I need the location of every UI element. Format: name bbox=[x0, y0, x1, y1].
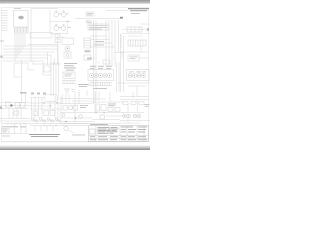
note text bottom left bbox=[2, 126, 26, 127]
label text bbox=[93, 88, 107, 89]
wire harness lower mid bbox=[30, 98, 62, 110]
relay K9 bbox=[100, 115, 105, 119]
contactor row left bbox=[0, 103, 30, 109]
junction bbox=[56, 102, 57, 103]
title block note line bbox=[90, 123, 108, 126]
motor centers bbox=[124, 116, 140, 117]
title block cells bbox=[89, 126, 149, 142]
relay V2 bbox=[33, 111, 38, 116]
leader wire bbox=[62, 125, 74, 133]
pump P1 box bbox=[64, 52, 71, 58]
notes legend table bbox=[2, 11, 8, 31]
label text bbox=[20, 92, 27, 94]
bottom specks row bbox=[31, 93, 46, 95]
wire bbox=[118, 34, 150, 96]
wire bbox=[0, 119, 60, 122]
wire bbox=[117, 62, 120, 92]
detail circle bbox=[64, 126, 68, 130]
toolbar top bbox=[0, 0, 150, 4]
wire bbox=[31, 8, 58, 10]
relay K2 bbox=[128, 55, 139, 61]
P3 cells bbox=[127, 27, 142, 32]
fuse F1 bbox=[123, 102, 144, 105]
heater HR1 bbox=[96, 104, 100, 111]
label box small bbox=[103, 60, 110, 64]
terminal strip notes bbox=[64, 63, 77, 71]
valve V1 bbox=[50, 111, 55, 116]
U1 top label bbox=[14, 7, 21, 10]
gauge G3 bbox=[98, 73, 102, 77]
junction bbox=[50, 105, 51, 106]
ground bbox=[64, 89, 75, 93]
wire ticks bbox=[8, 123, 56, 127]
wire bbox=[106, 10, 128, 12]
connector P3 bbox=[127, 27, 142, 32]
contact row bbox=[31, 118, 61, 122]
node tick bbox=[147, 28, 149, 31]
label text bbox=[87, 58, 92, 60]
lamp labels bbox=[59, 14, 72, 28]
J3 label bbox=[85, 50, 91, 52]
lamp DS1 bbox=[54, 11, 59, 17]
lamp DS4 bbox=[61, 24, 66, 30]
component row box bbox=[30, 33, 52, 39]
margin tick bbox=[0, 40, 4, 43]
zone tick bbox=[0, 107, 2, 109]
meter M2 bbox=[128, 74, 132, 78]
gauge G1 bbox=[89, 73, 93, 77]
filter FL1 bbox=[44, 66, 50, 72]
node A bbox=[120, 17, 123, 19]
motor M7 bbox=[127, 114, 131, 118]
meter centers bbox=[129, 75, 144, 76]
revision text bbox=[3, 130, 8, 133]
wire bbox=[94, 20, 97, 104]
label text bbox=[72, 134, 85, 137]
relay V3 bbox=[44, 111, 49, 116]
connector J4 bbox=[128, 40, 146, 46]
motor M8 bbox=[133, 114, 137, 118]
note text bbox=[2, 135, 10, 138]
wire bbox=[75, 18, 122, 20]
junction bbox=[75, 117, 77, 119]
junction bbox=[65, 121, 67, 123]
wire risers bbox=[32, 96, 62, 118]
motor M1 body bbox=[65, 46, 70, 51]
breaker CB2 bbox=[55, 39, 60, 43]
lamp DS3 bbox=[54, 24, 59, 30]
terminal comb TB2 bbox=[89, 83, 112, 86]
gauge labels bbox=[90, 66, 112, 69]
gauge G2 bbox=[94, 73, 98, 77]
gauge G5 bbox=[107, 73, 111, 77]
J4 pins bbox=[131, 40, 144, 46]
label text bbox=[145, 104, 150, 107]
meter M5 bbox=[142, 74, 146, 78]
wire route left mid bbox=[14, 60, 34, 94]
wire bbox=[139, 57, 149, 59]
wire bbox=[122, 24, 150, 36]
gauge G4 bbox=[103, 73, 107, 77]
relay box bbox=[84, 55, 91, 60]
relay K5b bbox=[21, 103, 26, 108]
vertical bus right-center bbox=[106, 20, 121, 66]
status bar bottom bbox=[0, 145, 150, 150]
wire bbox=[79, 90, 87, 96]
title block bbox=[89, 126, 149, 142]
relay K7 bbox=[108, 108, 113, 112]
connector U1 bbox=[14, 11, 29, 28]
label text bbox=[108, 104, 116, 107]
label text bbox=[80, 105, 88, 108]
relay K4 bbox=[6, 102, 11, 107]
meter cluster box bbox=[127, 70, 150, 81]
junction bbox=[43, 102, 44, 103]
connector stack J3 bbox=[84, 38, 91, 48]
U1 label blob bbox=[18, 16, 24, 20]
sheet border bbox=[1, 8, 148, 142]
wire bbox=[22, 94, 26, 102]
tick row bbox=[86, 21, 92, 24]
switch S3 bbox=[63, 106, 68, 111]
relay K3 bbox=[63, 72, 75, 79]
subtitle text bbox=[131, 12, 140, 15]
U1 pins bbox=[15, 27, 29, 34]
switch S4 bbox=[73, 106, 78, 111]
revision box bbox=[2, 129, 10, 134]
meter labels bbox=[129, 71, 146, 74]
gauge box bbox=[88, 70, 114, 81]
lamp DS7 bbox=[62, 114, 65, 117]
label text bbox=[78, 84, 89, 87]
title block text right bbox=[90, 127, 147, 141]
relay K5 bbox=[15, 103, 20, 108]
lamp DS8 bbox=[79, 115, 83, 119]
label block K1 bbox=[86, 12, 94, 16]
wire risers right of staircase bbox=[28, 45, 61, 66]
title block dense text bbox=[98, 127, 119, 133]
node B bbox=[10, 104, 12, 106]
wire bbox=[94, 53, 124, 65]
margin tick bbox=[0, 56, 3, 58]
lamp box bbox=[50, 10, 68, 34]
wire bbox=[92, 92, 124, 112]
junction bbox=[95, 112, 96, 113]
relay K6 bbox=[14, 111, 19, 115]
gauge centers bbox=[91, 75, 110, 76]
lamp DS2 bbox=[61, 11, 66, 17]
oval loop bbox=[44, 95, 58, 102]
resistor bank bbox=[62, 81, 76, 84]
lamp DS6 bbox=[69, 106, 73, 110]
motor M9 bbox=[137, 114, 141, 118]
wire risers mid-left bbox=[43, 62, 59, 96]
motor M1 block bbox=[62, 38, 74, 45]
wire bottom runs bbox=[2, 124, 88, 132]
wire bbox=[122, 92, 144, 113]
wire bbox=[58, 34, 65, 64]
wire bbox=[30, 9, 32, 63]
contact dots bbox=[34, 120, 59, 121]
wire bbox=[90, 36, 115, 47]
motor M6 bbox=[123, 114, 127, 118]
pump P1 body bbox=[66, 54, 69, 57]
wire risers mid bbox=[63, 92, 80, 124]
wire bbox=[120, 118, 150, 123]
wire bbox=[120, 46, 149, 58]
wire bus under U1 staircase bbox=[3, 34, 58, 62]
heater HR2 bbox=[101, 105, 106, 111]
border bottom rule bbox=[1, 141, 148, 143]
wire bbox=[120, 97, 149, 100]
relay K8 bbox=[115, 108, 120, 112]
label text mid right bbox=[94, 41, 104, 45]
wire bbox=[60, 99, 120, 124]
meter M4 bbox=[137, 74, 141, 78]
meter M3 bbox=[133, 74, 137, 78]
junction bbox=[103, 112, 104, 113]
wire bbox=[0, 124, 28, 134]
wire drops bbox=[9, 108, 21, 119]
title header text top right bbox=[128, 8, 149, 11]
J3 hatch bbox=[84, 41, 91, 46]
wire bbox=[92, 113, 124, 120]
connector P2 bbox=[88, 24, 108, 30]
note text bottom center bbox=[29, 134, 60, 137]
logo box bbox=[90, 129, 96, 134]
breaker CB1 bbox=[55, 34, 60, 38]
